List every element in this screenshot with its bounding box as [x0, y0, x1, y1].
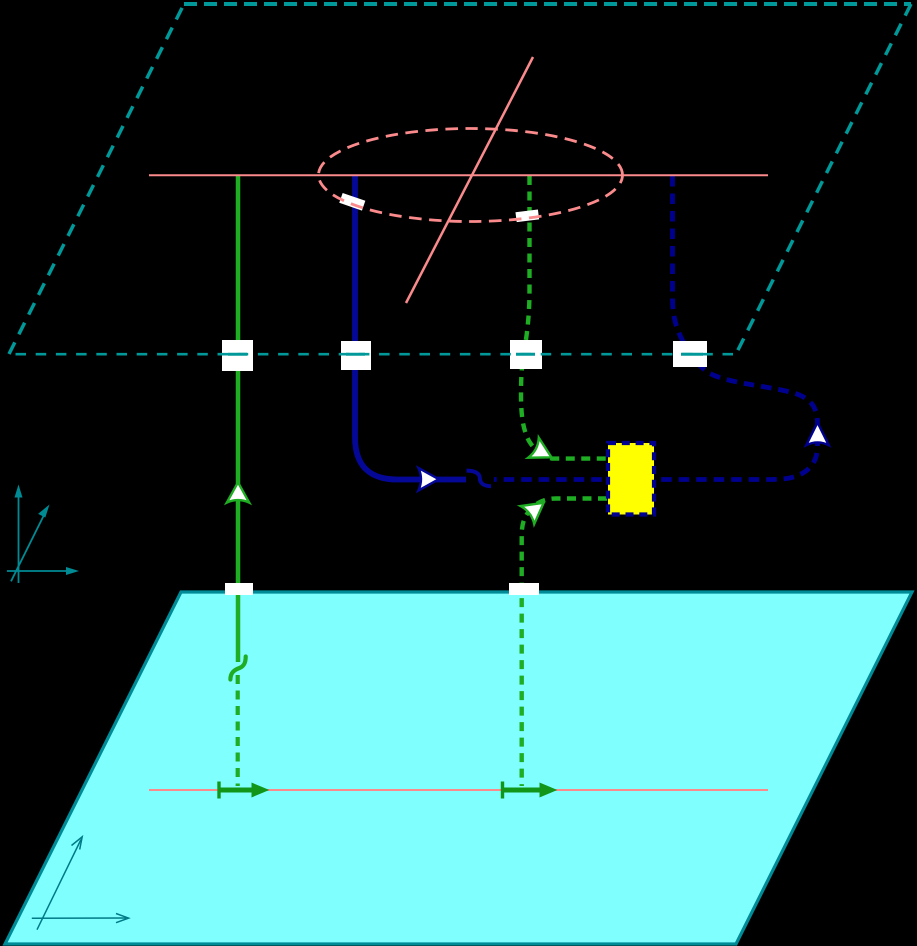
green NE arrowhead on line 3 — [521, 494, 551, 524]
green dashed below break — [236, 675, 240, 786]
white crossing marker M2 (blue line at top-plane edge) — [341, 341, 371, 370]
bottom plane axes (2d) — [32, 837, 129, 930]
teal dashes over markers M1-M4 — [228, 353, 703, 356]
pink field line (horizontal) — [149, 174, 768, 176]
blue break squiggle — [467, 471, 492, 487]
white crossing marker M6 (green dashed at bottom-plane edge) — [509, 583, 539, 595]
pink dashed flux ellipse — [319, 129, 623, 222]
navy up arrowhead on loop — [806, 423, 829, 446]
top plane dashed teal border — [9, 4, 911, 354]
navy dashed world-line loop — [494, 176, 818, 480]
green dashed world-line 2 (upper, to yellow brane) — [521, 176, 607, 459]
green vector arrow right on bottom pink line — [503, 782, 557, 799]
pink line on bottom plane — [149, 789, 768, 791]
green world-line 1 : solid part (top plane to break) — [230, 176, 245, 786]
white crossing marker M1 (green line at top-plane edge) — [222, 340, 253, 371]
green SE arrowhead on line 2 — [528, 438, 557, 468]
white crossing marker M4 (navy dashed at top-plane edge) — [673, 341, 707, 367]
white crossing marker M3 (green dashed at top-plane edge) — [510, 340, 542, 369]
yellow brane rectangle with navy dashed border — [608, 443, 654, 515]
pink field line (diagonal) — [406, 57, 533, 303]
white crossing marker A (blue line at flux ellipse) — [339, 193, 365, 211]
green dashed world-line 3 (lower, yellow brane to bottom plane) — [522, 499, 607, 787]
blue world-line : solid thick — [355, 176, 466, 480]
green vector arrow left on bottom pink line — [219, 782, 268, 799]
blue right arrowhead on solid line — [418, 468, 438, 491]
green up arrowhead on line 1 — [227, 482, 250, 502]
white crossing marker M5 (green line at bottom-plane edge) — [225, 583, 253, 595]
bottom cyan plane — [5, 592, 912, 944]
green break squiggle — [230, 657, 245, 680]
white crossing marker B (green dashed at flux ellipse) — [515, 209, 539, 222]
upper-left 3d axes — [7, 490, 74, 583]
